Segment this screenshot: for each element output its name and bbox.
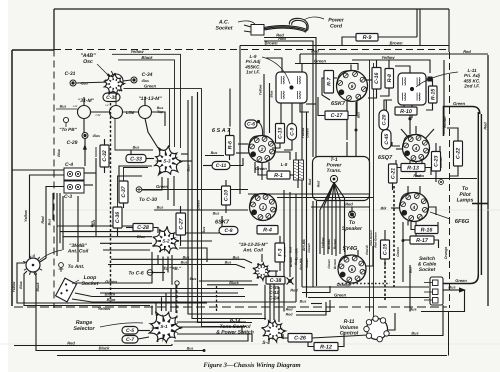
wire S-1 right 2 — [178, 327, 242, 334]
svg-text:Bus: Bus — [211, 151, 218, 155]
svg-text:Bus: Bus — [448, 286, 455, 290]
wire S-2 bus down 2 — [162, 257, 164, 282]
wire brown heater — [240, 45, 449, 47]
svg-text:To C-30: To C-30 — [139, 197, 157, 203]
wire bus C-6 — [153, 272, 165, 274]
svg-text:Green: Green — [255, 166, 267, 171]
wire S-1 right 3 — [177, 334, 252, 342]
wire green pilot top — [444, 107, 480, 137]
wire S-4 up 4 — [278, 287, 280, 322]
svg-text:C-13: C-13 — [278, 128, 284, 139]
svg-text:Black: Black — [99, 346, 110, 351]
wire border C-4 — [12, 169, 64, 171]
svg-text:S-4: S-4 — [262, 340, 270, 346]
svg-text:Yellow: Yellow — [301, 127, 305, 138]
wire green thick bottom — [444, 275, 479, 284]
wire S-2 left 1 — [57, 225, 152, 227]
resistor R-12 — [314, 343, 338, 351]
wire C-33 right — [146, 158, 154, 160]
wire 5Y4G top1 — [344, 250, 346, 256]
wire S-1 riser 4 — [165, 293, 167, 311]
wire R-12 right — [338, 332, 344, 347]
svg-text:Yellow: Yellow — [24, 209, 28, 222]
svg-text:Black: Black — [141, 55, 153, 60]
wire C-13 bottom — [272, 143, 280, 148]
oscillator coil L-8 — [294, 160, 304, 180]
wire R-17 right — [434, 240, 439, 248]
svg-text:Brn-Blk: Brn-Blk — [295, 248, 299, 260]
wire red-green 2 — [373, 63, 375, 318]
volume control R-11 — [364, 316, 389, 342]
svg-text:6F6G: 6F6G — [455, 218, 470, 225]
wire trunk 3 — [198, 92, 253, 323]
wire pilot lamp lead 2 — [480, 114, 482, 275]
wire R-9 top 2 — [419, 10, 421, 46]
capacitor C-20 — [379, 110, 389, 130]
switch S-2 — [152, 226, 179, 254]
wire C-7 lead — [138, 337, 149, 339]
wire S-2 left 3 — [63, 236, 152, 238]
resistor R-6 — [226, 136, 235, 156]
wire 5Y4G left v2 — [316, 201, 318, 286]
wire S-3 right 1 — [181, 153, 188, 155]
svg-text:Socket: Socket — [419, 267, 436, 273]
wire bus arrow left — [95, 147, 97, 157]
svg-text:C-8: C-8 — [224, 228, 232, 234]
wire speaker red — [311, 206, 370, 208]
svg-text:Black: Black — [229, 281, 240, 285]
capacitor C-5 — [122, 327, 138, 335]
svg-text:Brown: Brown — [327, 239, 331, 250]
svg-text:6SQ7: 6SQ7 — [378, 155, 393, 161]
capacitor C-7 — [122, 336, 138, 344]
wire heater 1 — [346, 142, 348, 157]
junction C-45 — [385, 125, 388, 128]
svg-text:Bus: Bus — [300, 300, 307, 304]
svg-text:1st I.F.: 1st I.F. — [246, 70, 260, 75]
wire S-2 right 2 — [180, 240, 212, 242]
wire row out 2 — [277, 197, 374, 199]
wire S-1 right 4 — [174, 334, 248, 341]
switch S-1 — [149, 312, 181, 343]
wire bus 6F6G drop — [402, 222, 404, 282]
svg-text:C-37: C-37 — [121, 185, 127, 197]
wire L-11 top — [395, 66, 410, 73]
svg-text:Blk: Blk — [381, 207, 388, 211]
svg-text:C-9: C-9 — [289, 128, 295, 136]
wire black row — [207, 284, 258, 286]
svg-text:Brown: Brown — [264, 41, 277, 46]
wire green vert mid — [301, 64, 303, 288]
capacitor C-22 — [454, 141, 463, 166]
capacitor C-26 — [288, 334, 312, 343]
svg-text:1: 1 — [262, 205, 265, 211]
svg-text:C-32: C-32 — [102, 150, 108, 161]
wire S-4 up 2 — [269, 284, 271, 322]
wire C-15 top — [384, 230, 386, 240]
wire S-4 up 1 — [264, 285, 266, 320]
wire heater 2 — [355, 142, 357, 157]
wire black loop — [118, 60, 175, 147]
trimmer To PB — [63, 117, 68, 127]
wire R-6 top — [229, 128, 231, 136]
wire L9 bottom 1 — [280, 103, 282, 124]
wire L-11 bottom 2 — [411, 105, 413, 118]
capacitor C-9 — [287, 124, 297, 141]
svg-text:Blue: Blue — [107, 297, 116, 302]
capacitor C-38 — [266, 277, 285, 285]
wire R-8 bottom — [380, 88, 389, 96]
svg-text:Bus: Bus — [187, 165, 191, 172]
wire C-28 left — [126, 227, 133, 229]
resistor R-9 — [356, 34, 378, 42]
wire R-16 loop — [411, 222, 415, 230]
wire bus arrow lead — [444, 289, 460, 291]
wire C-11 left — [203, 165, 212, 167]
wire arrow C-29 — [83, 145, 87, 150]
svg-text:Red: Red — [294, 259, 298, 265]
svg-text:Blue: Blue — [19, 281, 23, 288]
wire green branch — [169, 89, 171, 147]
oscillator coil A4B — [104, 73, 125, 95]
wire 6SQ7 left — [396, 148, 403, 150]
svg-text:C-28: C-28 — [137, 225, 149, 231]
capacitor C-37 — [119, 181, 128, 203]
wire C-3 right stub — [84, 184, 93, 186]
svg-text:C-21: C-21 — [390, 168, 396, 179]
capacitor C-21 — [389, 164, 398, 183]
leader 6F6G — [430, 212, 450, 219]
AC socket — [244, 25, 264, 36]
svg-text:Red-Green: Red-Green — [373, 232, 377, 248]
resistor R-15 — [429, 86, 438, 103]
wire T1 fan 1 — [328, 183, 334, 254]
junction L-11 pin — [428, 77, 433, 82]
wire R-9 right — [378, 36, 417, 38]
svg-text:Green: Green — [455, 278, 467, 283]
wire intercoil 1 — [91, 111, 110, 113]
svg-text:Bus: Bus — [213, 212, 220, 216]
scan fold line lower — [0, 343, 500, 345]
wire C-20 top — [384, 100, 392, 110]
svg-text:Speaker: Speaker — [342, 226, 363, 232]
svg-text:Brown: Brown — [289, 257, 293, 267]
wire C-4 right stub — [84, 172, 96, 174]
wire R-9 top — [416, 10, 418, 38]
wire red AC 1 — [264, 38, 316, 158]
wire C-36 bottom — [117, 228, 119, 236]
wire red C-3 — [40, 187, 64, 263]
wire L9 bottom 2 — [291, 103, 293, 124]
svg-text:C-36: C-36 — [115, 212, 121, 223]
wire C-32 top — [104, 139, 106, 145]
coil 31-M — [78, 106, 91, 119]
wire C-11 right — [230, 158, 243, 166]
wire coil mid drop — [115, 119, 153, 151]
wire bus left col — [95, 158, 97, 236]
wire 6SQ7 b2 — [416, 162, 424, 176]
svg-text:Ant. Coil: Ant. Coil — [242, 247, 263, 253]
wire R-9 left — [342, 37, 356, 46]
svg-text:R-7: R-7 — [326, 76, 332, 85]
chassis dashed outline bottom — [14, 306, 447, 308]
svg-text:Yellow: Yellow — [259, 84, 263, 95]
wire shielded osc lead — [110, 103, 112, 302]
wire C-22 bottom — [449, 166, 458, 176]
wire loop black — [75, 293, 245, 297]
svg-text:Red: Red — [286, 308, 294, 312]
resistor R-17 — [410, 236, 434, 244]
wire vol right — [387, 313, 396, 330]
wire ant2 top — [261, 254, 263, 262]
wire C-28 right — [153, 228, 158, 234]
svg-text:Bus: Bus — [187, 347, 194, 351]
svg-text:To Ant.: To Ant. — [68, 264, 85, 270]
wire T1 fan 5 — [334, 183, 345, 252]
svg-text:R-17: R-17 — [416, 238, 429, 244]
wire C-37 bottom — [123, 203, 125, 208]
wire T1 fan 2 — [332, 183, 334, 255]
svg-text:Red: Red — [484, 122, 488, 130]
svg-text:Red: Red — [278, 36, 286, 41]
svg-text:Green: Green — [105, 279, 117, 284]
wire yellow top — [352, 60, 430, 73]
capacitor C-17 — [325, 111, 348, 120]
wire C-5 lead — [138, 330, 150, 332]
wire 6F6G right — [429, 207, 437, 215]
wire loop green — [76, 252, 152, 283]
wire top border — [54, 8, 449, 10]
svg-text:Bus: Bus — [409, 267, 413, 273]
wire S-2 right 1 — [179, 216, 222, 233]
svg-text:"19-13-25-M": "19-13-25-M" — [238, 242, 268, 248]
wire bus row 1 — [111, 259, 252, 263]
wire 6SK7 plate — [364, 79, 372, 81]
svg-text:"31-M": "31-M" — [78, 98, 95, 104]
capacitor F-3 — [275, 243, 285, 262]
svg-text:Yellow: Yellow — [381, 55, 395, 60]
svg-text:C-7: C-7 — [126, 337, 134, 343]
wire C-16 top — [376, 60, 378, 68]
svg-text:R-8: R-8 — [387, 74, 393, 82]
switch S-3 — [155, 146, 183, 175]
wire left col 1 — [56, 193, 58, 256]
wire vol top — [375, 318, 377, 321]
wire C-26 right — [312, 335, 368, 338]
wire intercoil 2 — [123, 111, 139, 113]
svg-text:R-10: R-10 — [400, 109, 412, 115]
wire C-33 top lead — [130, 150, 132, 155]
wire R-8 top — [388, 60, 390, 69]
svg-text:Figure 3—Chassis Wiring Diagra: Figure 3—Chassis Wiring Diagram — [203, 362, 300, 369]
svg-text:Green: Green — [314, 59, 327, 64]
resistor R-10 — [395, 107, 417, 115]
wire trunk 2 — [192, 96, 266, 319]
wire C-22 top — [447, 128, 458, 141]
wire 6SQ7 diag 1 — [425, 129, 434, 139]
loop socket — [56, 278, 77, 302]
svg-text:Green: Green — [144, 84, 157, 89]
svg-text:Red: Red — [463, 49, 471, 54]
svg-text:C-4: C-4 — [65, 162, 73, 168]
svg-text:Bus: Bus — [183, 255, 190, 259]
svg-text:Lamps: Lamps — [457, 198, 474, 204]
svg-text:Red: Red — [41, 216, 45, 224]
svg-text:C-17: C-17 — [331, 113, 344, 119]
junction V1 — [355, 129, 358, 132]
wire V1 bottom 1 — [346, 101, 348, 140]
svg-text:Black: Black — [36, 281, 40, 291]
IF transformer L-9 — [276, 72, 307, 103]
svg-text:Red: Red — [317, 180, 321, 187]
svg-text:Osc: Osc — [83, 59, 93, 65]
wire S-2 row 210 — [154, 209, 248, 211]
capacitor C-29 — [82, 133, 88, 139]
wire 6SA7 stub B2 — [261, 163, 263, 180]
wire orange socket — [302, 286, 429, 288]
svg-text:Cord: Cord — [330, 23, 343, 29]
wire L-11 bottom 1 — [403, 105, 405, 107]
svg-text:Green: Green — [396, 247, 400, 257]
svg-text:"To PB": "To PB" — [59, 127, 77, 132]
leader A4B — [97, 64, 108, 75]
wire T1 fan 0b — [324, 183, 334, 255]
wire mid vert red — [289, 192, 291, 277]
wire green socket — [308, 297, 429, 299]
capacitor C-10 — [222, 186, 231, 205]
junction grid cap — [257, 120, 260, 123]
wire red B+ — [300, 53, 488, 55]
wire 6F6G b1 — [407, 221, 409, 226]
wire R-12 left — [308, 342, 314, 347]
wire 13M down — [145, 119, 158, 149]
wire S-1 riser 5 — [170, 289, 172, 313]
wire corner C-36 — [118, 176, 143, 207]
wire S-3 down 3 — [173, 176, 175, 206]
svg-text:Green: Green — [334, 293, 347, 298]
svg-text:Red: Red — [413, 174, 421, 178]
resistor R-1 — [267, 171, 290, 179]
svg-text:L-8: L-8 — [281, 162, 288, 167]
wire C-26 left — [283, 334, 288, 338]
wire C-45 bottom — [392, 142, 400, 146]
wire C-23 bottom — [435, 171, 437, 182]
wire 6SA7 stub B1 — [254, 162, 256, 173]
svg-text:2nd I.F.: 2nd I.F. — [463, 84, 480, 89]
svg-text:Red-Green: Red-Green — [369, 230, 373, 246]
wire 6F6G left — [391, 207, 400, 209]
wire shielded S-1 lead — [216, 286, 218, 311]
wire S-2 right 3 — [179, 248, 207, 262]
capacitor C-34 — [131, 77, 137, 83]
capacitor C-23 — [432, 152, 441, 172]
wire R-13 left — [396, 160, 401, 168]
svg-text:L2: L2 — [106, 104, 109, 107]
wire T1 fan 4 — [334, 183, 340, 254]
wire C-29 to C-4 — [84, 139, 86, 167]
wire bus drop 2 — [409, 265, 411, 312]
wire 6SQ7 top — [415, 126, 417, 134]
svg-text:Bus: Bus — [133, 146, 140, 150]
wire coil left — [17, 263, 207, 303]
wire C-38 top lead — [275, 271, 277, 277]
svg-text:Green: Green — [307, 243, 311, 252]
tube V5 6F6G — [400, 193, 429, 222]
capacitor C-45 — [382, 130, 392, 150]
wire bus row 293 — [100, 292, 238, 294]
wire ant2 right — [271, 270, 278, 272]
wire yellow vert mid — [306, 112, 308, 298]
leader A.C. socket — [238, 21, 255, 24]
chassis dashed outline top — [54, 49, 449, 51]
wire S-2 left 2 — [60, 231, 151, 233]
svg-text:F-3: F-3 — [277, 248, 283, 256]
svg-text:R-4: R-4 — [263, 228, 272, 234]
wire S-3 down 1 — [142, 177, 162, 190]
svg-text:Red: Red — [286, 313, 294, 317]
resistor R-4 — [257, 226, 278, 235]
svg-text:Yellow: Yellow — [321, 237, 325, 248]
power cord — [264, 18, 308, 32]
wire R-1 left — [258, 166, 267, 175]
svg-text:Brown: Brown — [389, 41, 402, 46]
wire L9 right row — [306, 103, 316, 105]
wire brown vertical — [239, 46, 241, 195]
wire S-2 left 5 — [103, 249, 150, 251]
svg-text:Red-B: Red-B — [365, 245, 369, 255]
svg-text:To "PB.": To "PB." — [163, 266, 182, 271]
svg-text:-Bus: -Bus — [92, 134, 100, 138]
wire C-17 right — [348, 100, 357, 116]
wire bus S-4 — [311, 303, 322, 305]
svg-text:R-12: R-12 — [320, 344, 332, 350]
svg-text:Bus: Bus — [60, 105, 67, 109]
wire L9 top lead — [266, 58, 282, 72]
wire top-left border — [12, 49, 54, 51]
wire bus vol — [386, 305, 443, 336]
switch S-4 — [262, 320, 286, 342]
wire R-1 right — [290, 174, 296, 176]
capacitor C-32 — [100, 145, 109, 167]
wire bus left drop — [52, 193, 54, 220]
wire 6F6G b2 — [415, 222, 417, 237]
svg-text:Trans.: Trans. — [327, 168, 342, 174]
wire 6SA7 stub B3 — [268, 162, 270, 172]
wire 6F6G top2 — [419, 186, 421, 194]
svg-text:C-20: C-20 — [381, 114, 387, 125]
capacitor C-15 — [381, 240, 390, 259]
wire 31M top — [83, 97, 85, 106]
wire C-9 bottom — [284, 140, 292, 150]
svg-text:Socket: Socket — [81, 281, 98, 287]
capacitor C-36 — [113, 207, 122, 228]
junction 6SQ7 top — [408, 117, 411, 120]
leader loop socket — [72, 280, 79, 284]
wire brown drop R2 — [439, 146, 441, 170]
wire S-1 riser 3 — [161, 297, 163, 311]
wire C-21 bottom — [392, 183, 394, 190]
electrolytic capacitor C-4 — [64, 168, 84, 180]
wire bottom frame — [57, 355, 447, 357]
svg-text:C-35: C-35 — [106, 95, 117, 101]
wire 6SA7 stub R — [276, 152, 291, 160]
svg-text:C-27: C-27 — [178, 217, 184, 229]
tube V1 6SK7 — [337, 71, 368, 102]
wire R-15 top — [426, 79, 433, 86]
wire mid vert brnblk — [295, 194, 297, 302]
svg-text:C-23: C-23 — [434, 156, 440, 167]
wire C-17 left — [318, 97, 325, 116]
